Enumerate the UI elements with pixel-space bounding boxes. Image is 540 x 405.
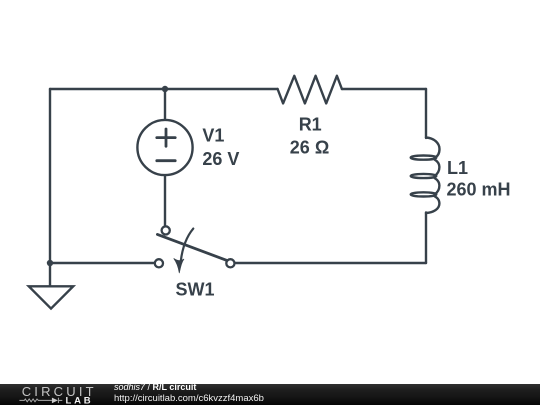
wire left rail (49, 89, 51, 263)
switch SW1 terminal right (226, 259, 234, 267)
wire bottom right (236, 262, 426, 264)
svg-text:260 mH: 260 mH (447, 180, 511, 200)
wire top rail right (342, 88, 426, 90)
switch SW1 lever (157, 234, 227, 260)
node dot left (47, 260, 53, 266)
resistor R1 (278, 76, 342, 104)
switch SW1 terminal top (162, 226, 170, 234)
switch SW1 arrowhead (174, 259, 184, 273)
svg-text:SW1: SW1 (176, 280, 215, 300)
svg-text:http://circuitlab.com/c6kvzzf4: http://circuitlab.com/c6kvzzf4max6b (114, 393, 264, 404)
svg-text:LAB: LAB (66, 395, 94, 405)
V1 minus (157, 159, 175, 162)
footer bar (0, 382, 540, 405)
wire top rail left (50, 88, 278, 90)
svg-text:26 V: 26 V (202, 149, 239, 169)
svg-text:sodhis7 / R/L circuit: sodhis7 / R/L circuit (114, 382, 196, 392)
logo schematic glyph (19, 398, 62, 403)
svg-text:V1: V1 (202, 126, 224, 146)
node dot top (162, 86, 168, 92)
switch SW1 terminal left (155, 259, 163, 267)
wire bottom left (50, 262, 154, 264)
switch SW1 arrow (181, 229, 194, 261)
voltage source V1 (137, 120, 192, 175)
svg-text:R1: R1 (299, 115, 322, 135)
wire right rail top (425, 89, 427, 138)
V1 plus (157, 129, 175, 146)
wire right rail bottom (425, 213, 427, 264)
svg-text:26 Ω: 26 Ω (290, 138, 329, 158)
svg-text:L1: L1 (447, 158, 468, 178)
ground (29, 263, 73, 309)
inductor L1 (411, 138, 440, 214)
logo diode (52, 398, 58, 404)
wire V1 top (164, 89, 166, 120)
label V1 (176, 115, 511, 300)
wire V1 bottom (164, 176, 166, 226)
